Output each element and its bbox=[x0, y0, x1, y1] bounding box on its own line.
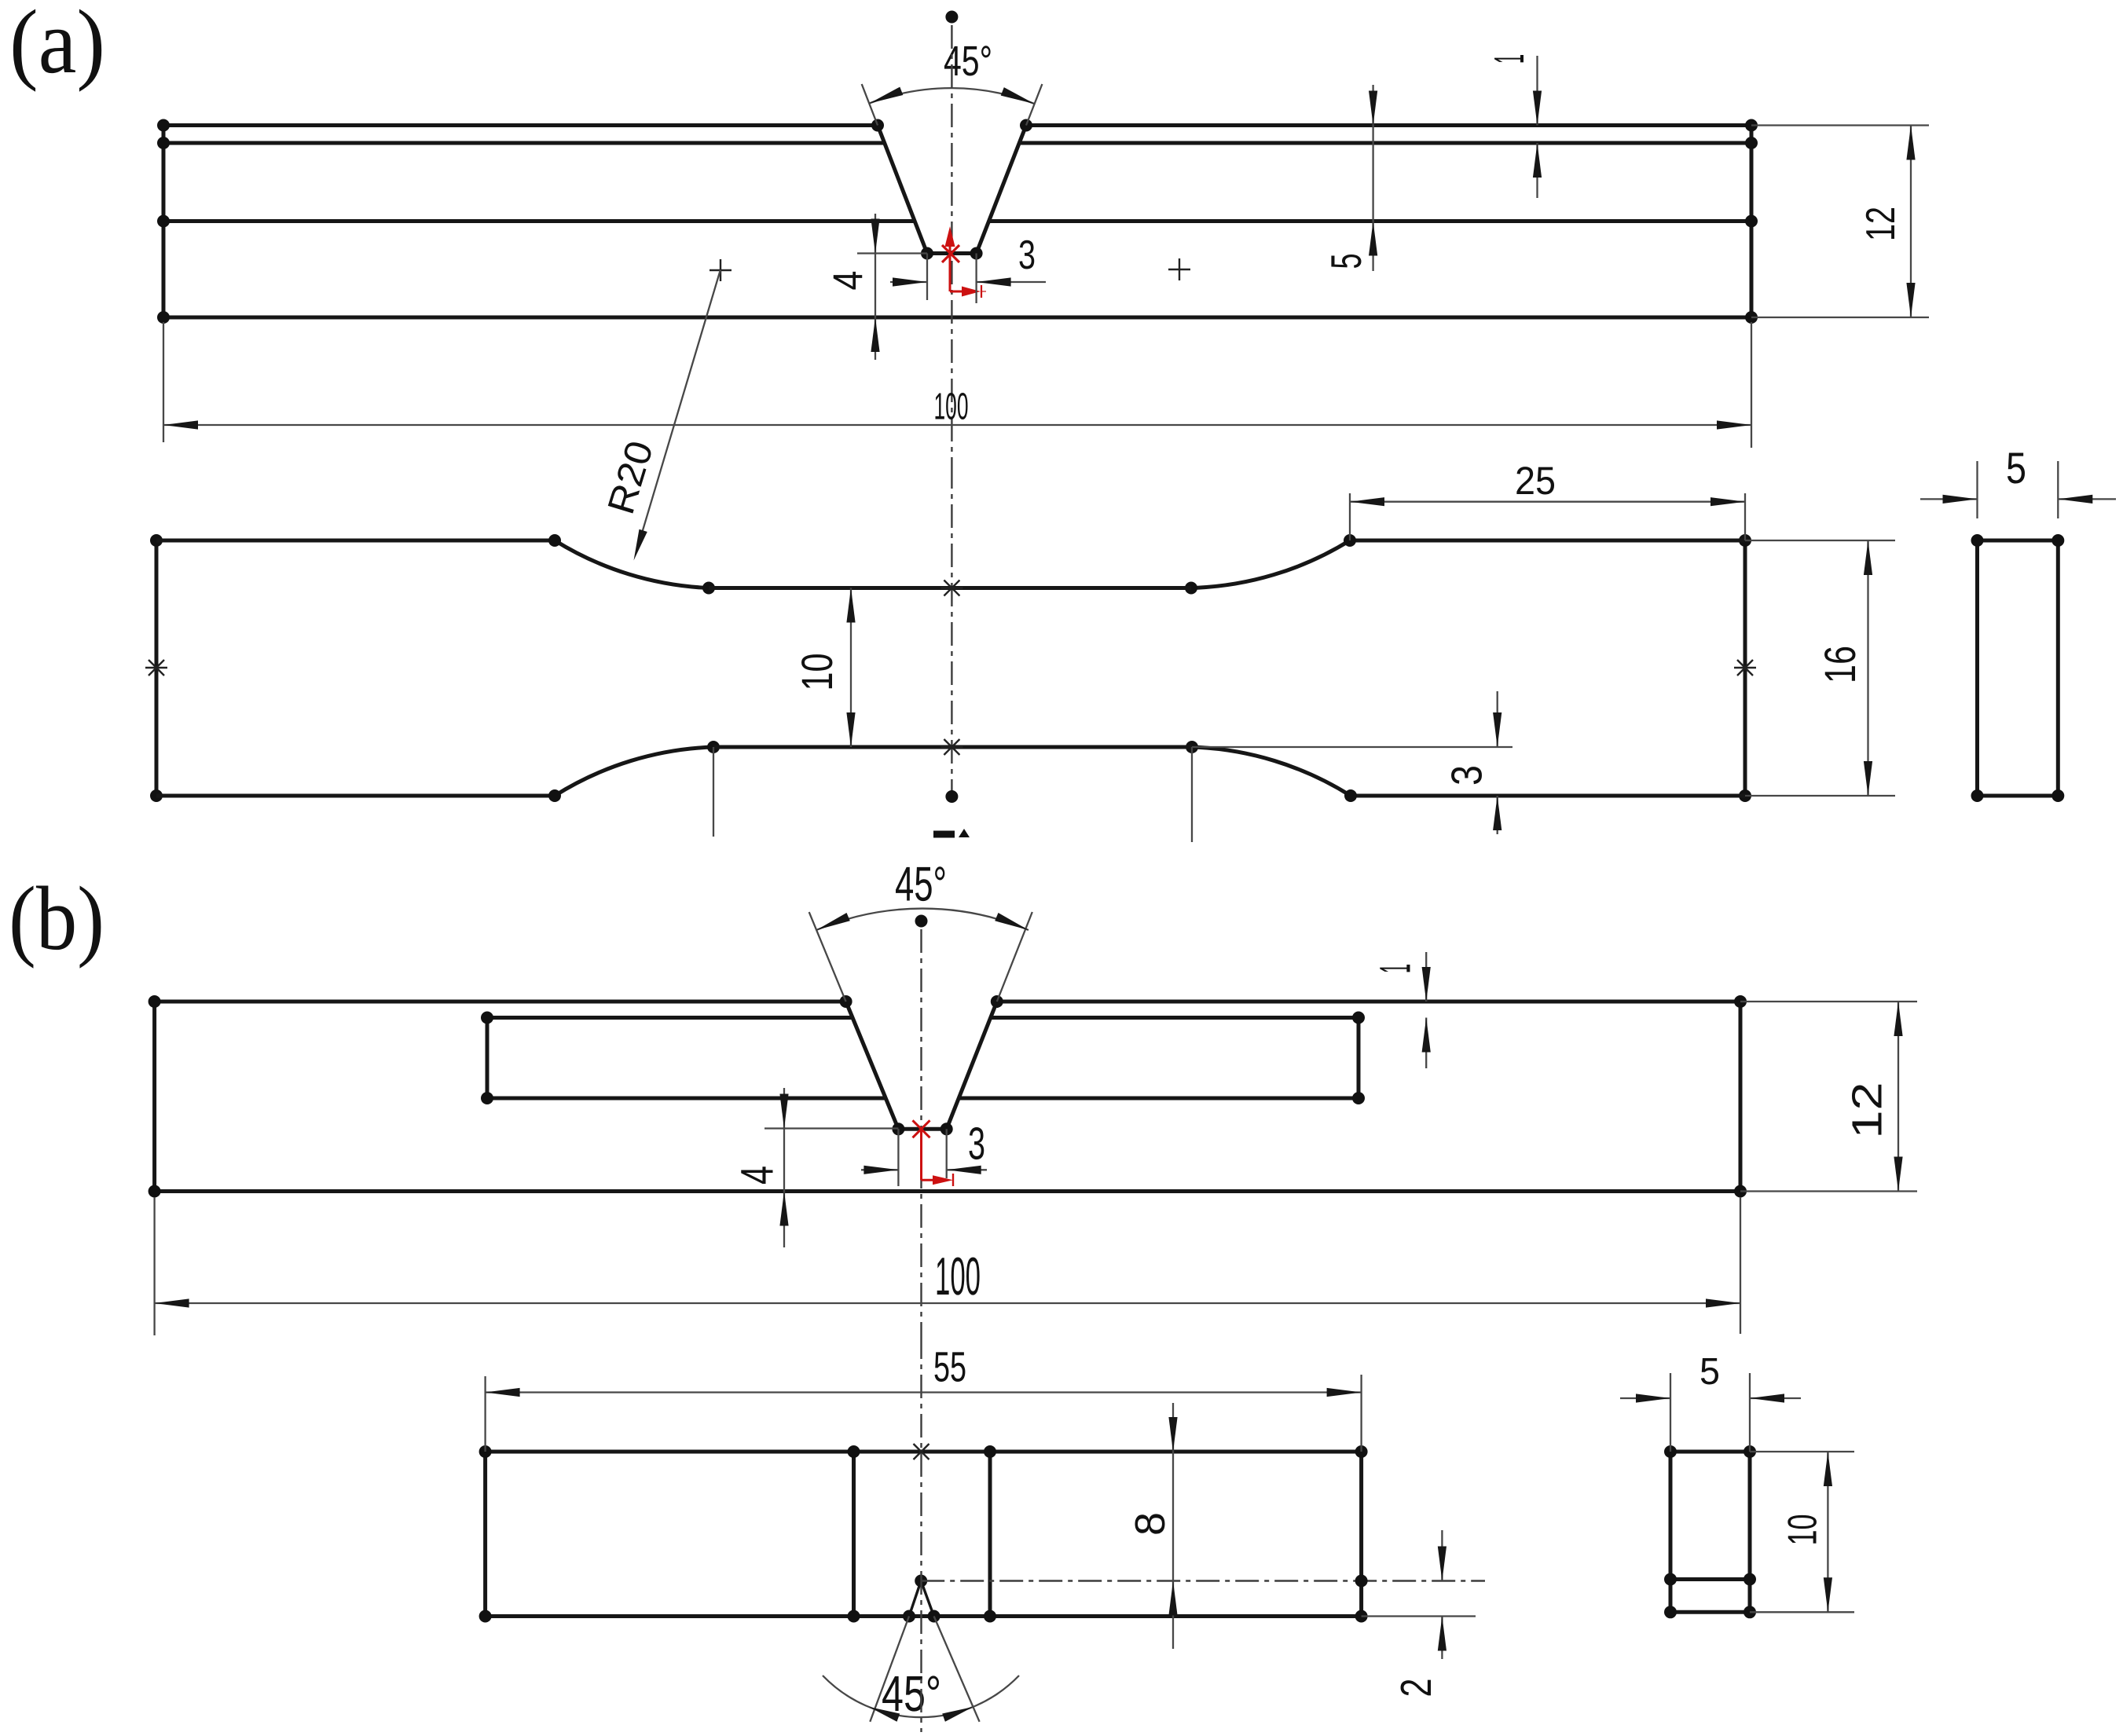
divider line right (b bottom) bbox=[984, 1445, 996, 1623]
inner lap plate top line (b) bbox=[487, 1016, 1358, 1020]
bar (a) bottom line bbox=[163, 316, 1751, 320]
dimension 55 line and arrows bbox=[486, 1388, 1362, 1397]
svg-text:5: 5 bbox=[1699, 1351, 1720, 1393]
R20 leader line bbox=[634, 270, 720, 561]
dimension 10 line and arrows (a) bbox=[846, 588, 855, 748]
bar (b) top line bbox=[155, 1000, 1740, 1004]
dimension 4 line and arrows (b) bbox=[779, 1088, 788, 1247]
sketch cross right (a) bbox=[1168, 258, 1190, 280]
svg-text:3: 3 bbox=[1443, 765, 1491, 786]
dimension 5 extension lines (side a) bbox=[1978, 461, 2059, 518]
dimension 5 extension lines (side b) bbox=[1670, 1373, 1750, 1452]
V-groove weld notch (b) bbox=[840, 995, 1003, 1135]
dimension 8 line and arrows bbox=[1168, 1403, 1177, 1649]
figure label (b) bbox=[9, 869, 104, 969]
dimension 1 line and arrows (b) bbox=[1422, 952, 1431, 1068]
V notch extensions (b bottom) bbox=[870, 1617, 979, 1722]
gauge end extension stubs bbox=[713, 747, 1192, 842]
dimension 8 text bbox=[1127, 1512, 1174, 1536]
centerline end dot bottom (a) bbox=[945, 790, 958, 803]
svg-text:4: 4 bbox=[826, 271, 872, 291]
svg-text:100: 100 bbox=[933, 386, 968, 427]
dimension 3 extension line (dogbone) bbox=[1192, 746, 1512, 748]
svg-text:4: 4 bbox=[732, 1166, 783, 1185]
dogbone gauge bottom line bbox=[713, 745, 1192, 749]
dimension 12 extension lines (a) bbox=[1751, 126, 1929, 318]
red origin marker (a) bbox=[942, 226, 986, 298]
dimension 16 text bbox=[1815, 646, 1864, 683]
dimension 100 text (a) bbox=[933, 386, 968, 427]
dimension 5 text (side b) bbox=[1699, 1351, 1720, 1393]
45 deg label (b top) bbox=[895, 857, 947, 911]
dimension 3 extension lines (a) bbox=[927, 254, 977, 304]
dogbone top grip edges bbox=[156, 539, 1745, 543]
dogbone top right fillet R20 bbox=[1185, 534, 1356, 595]
bar (a) corner vertex dots bbox=[157, 119, 1758, 324]
45 deg label (a) bbox=[944, 38, 992, 85]
dimension 12 line and arrows (b) bbox=[1894, 1002, 1902, 1192]
dimension 100 line and arrows (b) bbox=[155, 1298, 1740, 1307]
dimension 55 extension lines bbox=[486, 1375, 1362, 1452]
dogbone bottom grip edges bbox=[156, 794, 1745, 798]
svg-text:100: 100 bbox=[935, 1247, 981, 1306]
svg-text:2: 2 bbox=[1391, 1679, 1440, 1698]
svg-text:25: 25 bbox=[1515, 459, 1556, 503]
notch side extension lines (a) bbox=[862, 84, 1043, 126]
dimension 4 text (a) bbox=[826, 271, 872, 291]
bar (a) outline right edge bbox=[1750, 126, 1754, 318]
svg-text:45°: 45° bbox=[895, 857, 947, 911]
dogbone right edge bbox=[1739, 534, 1751, 802]
bar (a) interface line bbox=[163, 219, 1751, 223]
dimension 10 text (side b) bbox=[1780, 1514, 1826, 1546]
inner lap plate edges (b) bbox=[481, 1012, 1365, 1105]
bar (a) cladding line 1mm bbox=[163, 141, 1751, 145]
dogbone left edge bbox=[150, 534, 163, 802]
midpoint marker (b bottom) bbox=[914, 1444, 929, 1459]
inner lap plate bottom line (b) bbox=[487, 1097, 1358, 1101]
bar (a) top surface line bbox=[163, 123, 1751, 127]
dogbone bottom left fillet R20 bbox=[548, 741, 720, 802]
dimension 5 line and arrows (a) bbox=[1369, 85, 1377, 271]
dimension 4 extension line (b) bbox=[764, 1127, 898, 1129]
sketch cross left (a) bbox=[709, 259, 731, 281]
dimension 10 text (a) bbox=[792, 654, 841, 691]
svg-text:(b): (b) bbox=[9, 869, 104, 969]
svg-text:8: 8 bbox=[1127, 1512, 1174, 1536]
dimension 12 text (a) bbox=[1858, 207, 1904, 241]
dimension 3 text (b) bbox=[968, 1118, 985, 1169]
dimension 4 line and arrows (a) bbox=[871, 214, 879, 360]
dimension 5 text (side a) bbox=[2006, 443, 2026, 493]
dimension 100 extension lines (a) bbox=[163, 322, 1751, 448]
dimension 2 extension line bbox=[1362, 1615, 1476, 1617]
dogbone top left fillet R20 bbox=[548, 534, 715, 595]
bar (b) bottom line bbox=[155, 1189, 1740, 1193]
divider line left (b bottom) bbox=[848, 1445, 860, 1623]
dogbone bottom right fillet R20 bbox=[1186, 741, 1357, 802]
bar (b) outline left edge bbox=[152, 1002, 156, 1192]
svg-text:3: 3 bbox=[1018, 233, 1036, 278]
V notch (b bottom) bbox=[903, 1575, 940, 1623]
dimension 5 line and arrows (side a) bbox=[1920, 495, 2116, 504]
centerline (b top view) bbox=[920, 929, 922, 1335]
centerline end dot top (a) bbox=[945, 11, 958, 24]
dimension 3 text (dogbone) bbox=[1443, 765, 1491, 786]
svg-text:5: 5 bbox=[1322, 254, 1370, 269]
dimension 5 line and arrows (side b) bbox=[1620, 1394, 1801, 1402]
svg-text:1: 1 bbox=[1370, 964, 1420, 973]
apex dash-dot line (b bottom) bbox=[921, 1575, 1485, 1588]
centerline dot (b top) bbox=[915, 915, 928, 928]
dimension 3 line and arrows (b) bbox=[861, 1166, 987, 1174]
svg-text:(a): (a) bbox=[9, 0, 105, 93]
side view (a) rectangle bbox=[1971, 534, 2065, 802]
dimension 10 line and arrows (side b) bbox=[1824, 1452, 1832, 1612]
svg-text:12: 12 bbox=[1844, 1082, 1891, 1139]
notch side extension lines (b) bbox=[809, 912, 1032, 1002]
dogbone gauge top line bbox=[709, 586, 1191, 590]
dimension 55 text bbox=[933, 1343, 966, 1390]
svg-text:3: 3 bbox=[968, 1118, 985, 1169]
svg-text:16: 16 bbox=[1815, 646, 1864, 683]
centerline (a) bbox=[951, 25, 952, 795]
svg-text:55: 55 bbox=[933, 1343, 966, 1390]
bar (a) outline left edge bbox=[162, 126, 166, 318]
svg-text:10: 10 bbox=[792, 654, 841, 691]
bar (b) corner dots bbox=[148, 995, 1747, 1198]
svg-text:1: 1 bbox=[1486, 54, 1533, 64]
stray mark fragments bbox=[933, 829, 970, 837]
svg-text:5: 5 bbox=[2006, 443, 2026, 493]
dimension 3 text (a) bbox=[1018, 233, 1036, 278]
45 deg angular dimension arc (b bottom) bbox=[823, 1676, 1019, 1722]
svg-text:12: 12 bbox=[1858, 207, 1904, 241]
dimension 100 extension lines (b) bbox=[155, 1197, 1740, 1335]
dimension 3 line and arrows (dogbone) bbox=[1493, 691, 1501, 834]
dimension 100 text (b) bbox=[935, 1247, 981, 1306]
red origin marker (b) bbox=[913, 1120, 954, 1186]
45 deg angular dimension arc (a) bbox=[869, 87, 1035, 104]
dimension 5 text (a) bbox=[1322, 254, 1370, 269]
figure label (a) bbox=[9, 0, 105, 93]
dimension 100 line and arrows (a) bbox=[163, 420, 1751, 429]
dimension 10 extension lines (side b) bbox=[1750, 1452, 1854, 1612]
dimension 25 extension lines bbox=[1350, 493, 1745, 540]
dimension 3 line and arrows (a) bbox=[890, 277, 1046, 286]
midpoint markers dogbone bbox=[145, 580, 1756, 756]
svg-text:R20: R20 bbox=[600, 436, 662, 518]
svg-text:45°: 45° bbox=[882, 1665, 941, 1722]
dimension 3 extension lines (b) bbox=[898, 1129, 946, 1186]
R20 text bbox=[600, 436, 662, 518]
dimension 4 text (b) bbox=[732, 1166, 783, 1185]
dimension 2 line and arrows bbox=[1438, 1530, 1446, 1659]
bottom view (b) rectangle bbox=[479, 1445, 1368, 1623]
dimension 25 line and arrows bbox=[1350, 497, 1745, 506]
dimension 1 text (a) bbox=[1486, 54, 1533, 64]
dimension 12 text (b) bbox=[1844, 1082, 1891, 1139]
dimension 16 line and arrows bbox=[1864, 540, 1872, 796]
dimension 25 text bbox=[1515, 459, 1556, 503]
dimension 12 extension lines (b) bbox=[1740, 1002, 1917, 1192]
V-groove weld notch (a) bbox=[871, 119, 1032, 260]
dimension 12 line and arrows (a) bbox=[1906, 126, 1915, 318]
bar (b) outline right edge bbox=[1739, 1002, 1743, 1192]
dimension 1 line and arrows (a) bbox=[1533, 56, 1542, 198]
45 deg label (b bottom) bbox=[882, 1665, 941, 1722]
centerline (b bottom view) bbox=[920, 1335, 922, 1732]
dimension 2 text bbox=[1391, 1679, 1440, 1698]
dimension 4 extension line (a) bbox=[857, 252, 927, 254]
dimension 16 extension lines bbox=[1745, 540, 1895, 796]
dimension 1 text (b) bbox=[1370, 964, 1420, 973]
45 deg angular dimension arc (b top) bbox=[816, 909, 1028, 930]
svg-text:10: 10 bbox=[1780, 1514, 1826, 1546]
side view (b) rectangle bbox=[1664, 1445, 1756, 1618]
